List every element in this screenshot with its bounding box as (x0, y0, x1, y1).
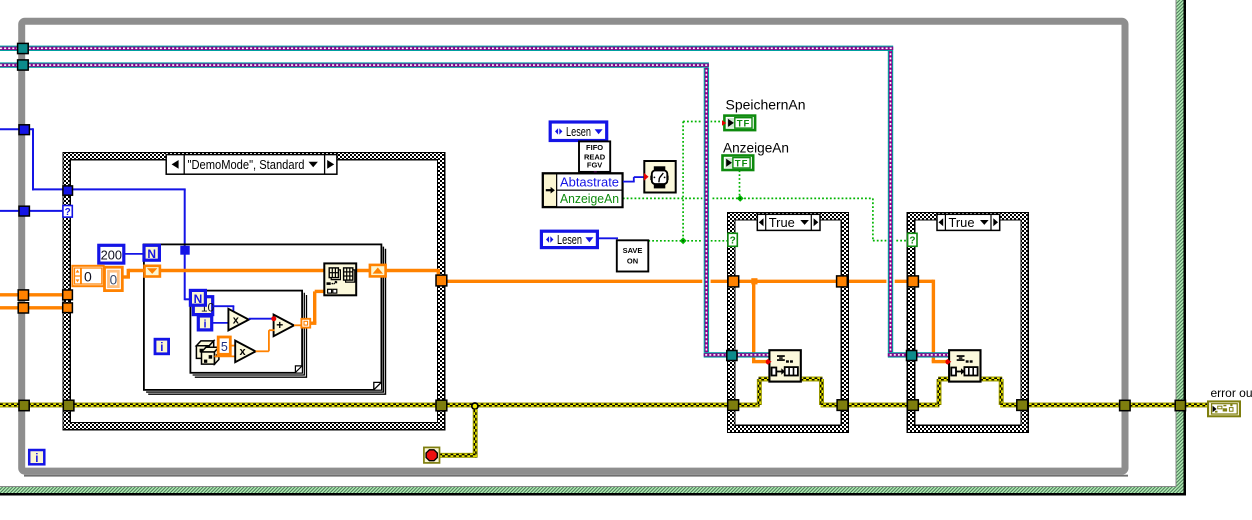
error wire: stop button branch horizontal (439, 453, 475, 458)
svg-text:ON: ON (627, 257, 638, 266)
orange array wire inside True case 1 (733, 280, 843, 283)
multiply function x2 (235, 341, 255, 363)
coercion dot at subVI orange input in True case 1 (766, 359, 771, 364)
orange wire stub into subVI in True case 1 (752, 360, 767, 363)
error wire: segment True case 1 to True case 2 (846, 403, 910, 408)
teal DAQmx tunnel 1 on while loop left border (18, 43, 29, 53)
case structure DemoMode border (checkered) (63, 152, 445, 429)
orange tunnel 1 on DemoMode left border (63, 290, 73, 300)
svg-text:0: 0 (84, 268, 92, 284)
svg-text:0: 0 (110, 272, 118, 287)
for loop dog-ear fold corner (374, 382, 382, 390)
svg-text:Lesen: Lesen (566, 124, 591, 139)
blue wire A inside DemoMode case down to inner for loop (70, 188, 186, 190)
enum constant Lesen #2 (541, 231, 597, 247)
case selector terminal ? on DemoMode border (63, 206, 72, 218)
svg-text:i: i (160, 342, 163, 354)
blue wire Lesen to SAVE ON (598, 237, 618, 239)
orange wire 1 from frame edge into DemoMode case border (0, 293, 64, 296)
write-to-FIFO subVI icon in True case 2 (947, 350, 980, 381)
inner for loop dog-ear fold corner (295, 366, 302, 373)
olive error tunnel on while loop left border (19, 400, 29, 410)
DAQmx task wire 1 stub into True case 2 teal tunnel (888, 352, 908, 357)
teal DAQmx tunnel on True case 2 left border (907, 351, 917, 361)
svg-text:True: True (949, 215, 975, 230)
wait until next ms multiple icon (wristwatch) (644, 161, 676, 193)
orange tunnel on True case 2 left border (908, 276, 919, 287)
error wire inside True case 2 (913, 403, 940, 408)
stop button (red octagon) (424, 447, 440, 463)
svg-text:?: ? (909, 236, 915, 247)
svg-text:TF: TF (737, 119, 751, 130)
coercion dot at add input (271, 316, 276, 321)
svg-text:+: + (276, 318, 283, 332)
olive error tunnel on True case 2 right border (1017, 400, 1028, 411)
svg-text:x: x (240, 346, 247, 358)
olive error tunnel on DemoMode left border (63, 400, 74, 411)
olive error tunnel on while loop right border (1120, 400, 1131, 410)
inner for loop iteration terminal i (198, 316, 211, 330)
svg-text:200: 200 (101, 247, 122, 262)
True case 1 selector label (757, 214, 820, 230)
DAQmx task wire 1 vertical down to True case 2 (886, 51, 894, 352)
red input arrow on wait icon (644, 173, 649, 181)
orange array wire from up-arrow shift register to case tunnel (385, 269, 441, 272)
for loop iteration terminal i (outer) (155, 339, 169, 354)
numeric constant 0 (shift register initializer) (105, 267, 123, 290)
orange wire stub into subVI in True case 2 (932, 360, 947, 363)
orange wire junction dot in True case 1 (751, 278, 757, 284)
numeric constant 5 (218, 337, 230, 354)
orange array wire tunnel to insert-into-array icon (310, 322, 316, 325)
inner for loop frame with stacked border (190, 291, 306, 378)
green dotted wire: unbundle AnzeigeAn output toward True case 2 selector (623, 197, 740, 199)
orange wire multiply2 up to add (256, 350, 269, 352)
svg-text:TF: TF (735, 158, 749, 169)
numeric constant 10 (partially hidden) (193, 297, 212, 315)
cluster wire stub FGV to unbundle (594, 172, 597, 174)
svg-text:AnzeigeAn: AnzeigeAn (560, 191, 619, 206)
orange tunnel on True case 1 left border (728, 276, 739, 287)
error wire: stop button branch vertical (473, 409, 478, 457)
svg-text:i: i (203, 319, 206, 331)
blue wire B from frame edge to case selector (0, 210, 65, 212)
svg-text:SpeichernAn: SpeichernAn (726, 98, 806, 113)
teal DAQmx tunnel 2 on while loop left border (18, 60, 29, 70)
coercion dot at subVI orange input in True case 2 (945, 359, 950, 364)
svg-text:i: i (35, 453, 38, 465)
subVI FIFO READ FGV (579, 141, 610, 172)
orange wire add to indexing tunnel (294, 324, 303, 326)
green dotted branch to SpeichernAn indicator (683, 121, 723, 123)
case selector terminal ? on True case 2 (908, 233, 917, 246)
for loop (outer) frame with stacked border (144, 244, 386, 394)
svg-text:N: N (194, 292, 203, 306)
svg-text:Lesen: Lesen (557, 232, 582, 247)
error wire inside DemoMode case (74, 403, 441, 408)
DAQmx task wire 2 horizontal (second from top) (0, 62, 709, 67)
svg-text:x: x (233, 314, 240, 326)
blue wire multiply to add (249, 318, 275, 320)
blue tunnel on DemoMode left border (wire A) (63, 186, 73, 195)
subVI SAVE ON (617, 240, 649, 271)
DAQmx task wire stub inside True case 2 (914, 352, 950, 357)
DemoMode case selector label (166, 155, 337, 175)
svg-text:"DemoMode", Standard: "DemoMode", Standard (188, 157, 305, 172)
shift register left (down arrow) (145, 266, 160, 277)
svg-text:?: ? (65, 207, 71, 218)
green dotted branch up to AnzeigeAn indicator (739, 170, 741, 196)
DAQmx task wire 2 stub into True case 1 teal tunnel (704, 352, 728, 357)
olive error tunnel on True case 1 right border (837, 400, 848, 411)
inner for loop count terminal N (190, 290, 205, 305)
indexing tunnel on inner for loop (301, 319, 310, 328)
orange array wire: True case 1 to True case 2 (ends at corner in case 2) (845, 280, 910, 283)
error wire junction ring near stop button (472, 403, 478, 409)
error wire: segment True case 2 to error out (1026, 403, 1209, 408)
True case 2 selector label (937, 214, 1000, 230)
olive error tunnel on True case 1 left border (728, 400, 739, 411)
red input arrow on SpeichernAn (722, 120, 726, 126)
diagram disable structure bottom border (green hatch) (0, 486, 1186, 495)
blue wire A from frame edge at y128 (0, 128, 33, 130)
svg-text:5: 5 (221, 340, 228, 354)
blue wire 10 to multiply (213, 305, 234, 307)
orange array output tunnel on DemoMode right border (436, 275, 447, 286)
diagram disable structure right border (green hatch) (1176, 0, 1186, 495)
orange tunnel on True case 1 right border (837, 276, 848, 287)
orange wire 0 constant to shift register (123, 275, 131, 278)
add function (274, 315, 294, 337)
green dotted junction diamond under AnzeigeAn indicator (737, 195, 744, 202)
svg-text:FGV: FGV (587, 160, 602, 169)
shift register right (up arrow) (370, 265, 386, 277)
for loop count terminal N (144, 245, 159, 260)
case structure True #2 border (checkered) (907, 213, 1028, 433)
case selector terminal ? on True case 1 (728, 233, 737, 246)
blue tunnel B on while loop left border (19, 206, 29, 216)
orange array wire: DemoMode case to True case 1 (446, 280, 729, 283)
error wire: segment DemoMode case to True case 1 (447, 403, 731, 408)
write-to-FIFO subVI icon in True case 1 (768, 350, 801, 381)
svg-text:True: True (769, 215, 795, 230)
orange array wire inside True case 2 (913, 280, 934, 283)
numeric constant 200 (99, 245, 124, 263)
red input arrow on subVI in True case 1 (768, 359, 772, 365)
boolean indicator SpeichernAn TF (722, 116, 755, 131)
DAQmx task wire stub inside True case 1 (734, 352, 770, 357)
orange wire 2 from frame edge into DemoMode case border (0, 306, 64, 309)
multiply function x1 (228, 309, 248, 331)
svg-text:Abtastrate: Abtastrate (560, 175, 619, 190)
error wire: left segment from frame edge into while loop and toward DemoMode case (0, 403, 66, 408)
svg-text:FIFO: FIFO (586, 143, 603, 152)
orange tunnel 2 on while loop left border (18, 303, 28, 313)
insert into array icon (324, 263, 356, 295)
red input arrow on subVI in True case 2 (947, 359, 951, 365)
error out cluster indicator (1208, 401, 1240, 416)
olive error tunnel on DemoMode right border (436, 400, 447, 411)
orange wire dice to multiply2 (214, 355, 237, 357)
teal DAQmx tunnel on True case 1 left border (727, 351, 737, 361)
DAQmx task wire 1 horizontal (top) (0, 46, 893, 51)
orange array wire main horizontal through for loop (128, 269, 145, 272)
orange wire 5 to multiply2 (230, 345, 237, 347)
random number dice icon (196, 341, 219, 364)
green dotted vertical linking SpeichernAn branch and SAVE ON junction (682, 122, 684, 241)
blue wire Abtastrate to wait icon (623, 177, 643, 182)
error wire inside True case 1 (733, 403, 760, 408)
green boolean dotted wire: SAVE ON output to junction and case 1 selector (648, 240, 728, 242)
orange tunnel 1 on while loop left border (18, 290, 28, 300)
while loop border (gray) (22, 21, 1128, 476)
green dotted junction diamond at SAVE ON tee (680, 237, 687, 244)
svg-text:?: ? (730, 236, 736, 247)
olive error tunnel on True case 2 left border (907, 400, 918, 411)
case structure True #1 border (checkered) (728, 213, 849, 433)
DAQmx task wire 2 vertical down to True case 1 (702, 68, 710, 352)
svg-text:N: N (147, 247, 156, 261)
olive error tunnel on disable structure border (1175, 400, 1185, 410)
svg-text:SAVE: SAVE (623, 246, 643, 255)
svg-text:error out: error out (1211, 386, 1252, 400)
numeric control 0 with increment/decrement (72, 266, 103, 286)
wire 200 to for loop count terminal (124, 253, 145, 255)
orange tunnel 2 on DemoMode left border (63, 303, 73, 313)
blue tunnel junction square on for loop border (180, 246, 189, 255)
svg-text:AnzeigeAn: AnzeigeAn (723, 140, 789, 155)
blue wire i to multiply (212, 322, 231, 324)
enum constant Lesen #1 (550, 122, 607, 141)
boolean indicator AnzeigeAn TF (723, 156, 754, 171)
while loop iteration terminal i (29, 450, 44, 465)
blue tunnel A on while loop left border (19, 125, 29, 135)
unbundle by name node (542, 173, 623, 208)
